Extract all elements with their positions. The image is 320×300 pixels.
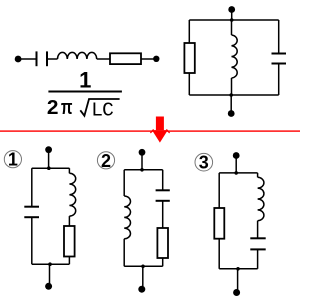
inductor L4 (circuit 2, 4 bumps) <box>124 196 130 239</box>
wire: circuit 2 left branch upper <box>123 170 125 196</box>
svg-text:3: 3 <box>199 153 209 173</box>
junction: circuit 2 bottom rail <box>141 265 145 269</box>
wire: circuit 2 capacitor to resistor <box>162 201 164 228</box>
wire: circuit 2 top stub <box>141 153 143 170</box>
wire: capacitor to inductor <box>47 58 58 60</box>
capacitor C2 (parallel circuit, top plate) <box>272 53 287 55</box>
node: series circuit right terminal <box>153 56 159 62</box>
red arrow head <box>152 130 168 143</box>
wire: circuit 1 right branch upper <box>68 168 70 173</box>
wire: circuit 1 bottom rail <box>32 263 70 265</box>
wire: bottom terminal stub <box>230 95 232 112</box>
wire: circuit 2 right branch upper <box>162 170 164 191</box>
node: circuit 3 top terminal <box>233 152 240 159</box>
wire: left terminal to capacitor <box>18 58 37 60</box>
inductor L5 (circuit 3, 4 bumps) <box>258 177 264 220</box>
wire: top rail <box>189 19 278 21</box>
wire: circuit 3 inductor to capacitor <box>257 221 259 239</box>
wire: circuit 3 left branch lower <box>218 239 220 269</box>
wire: circuit 1 right branch lower <box>68 257 70 265</box>
junction: circuit 3 bottom rail <box>236 267 240 271</box>
radical sign <box>80 99 119 116</box>
junction: top rail <box>230 18 234 22</box>
label circle 1 <box>4 151 21 168</box>
capacitor C1 (series, right plate) <box>46 51 48 66</box>
capacitor C1 (series, left plate) <box>36 51 38 66</box>
junction: circuit 1 bottom rail <box>48 262 52 266</box>
capacitor C3 (circuit 1, top plate) <box>24 206 39 208</box>
wire: right branch upper <box>278 20 280 54</box>
wire: circuit 3 bottom rail <box>219 268 257 270</box>
wire: top terminal stub <box>231 10 233 20</box>
label circle 2 <box>97 152 114 169</box>
wire: middle branch lower <box>231 78 233 95</box>
svg-text:1: 1 <box>8 150 18 170</box>
node: circuit 1 bottom terminal <box>45 283 52 290</box>
resistor R3 (circuit 1) <box>64 226 75 257</box>
red arrow right wing <box>166 129 169 133</box>
node: circuit 1 top terminal <box>45 146 52 153</box>
wire: circuit 1 left branch lower <box>31 217 33 264</box>
red arrow shaft <box>156 117 164 131</box>
wire: circuit 3 top stub <box>235 156 237 173</box>
wire: circuit 3 right branch upper <box>257 173 259 177</box>
wire: circuit 1 top rail <box>32 167 70 169</box>
svg-text:2: 2 <box>101 151 111 171</box>
capacitor C5 (circuit 3, bottom plate) <box>250 248 265 250</box>
junction: circuit 1 top rail <box>47 166 51 170</box>
wire: circuit 3 top rail <box>219 172 257 174</box>
wire: circuit 2 right branch lower <box>162 258 164 266</box>
inductor L1 (series, 4 bumps) <box>58 52 97 59</box>
wire: circuit 2 bottom rail <box>124 265 163 267</box>
red divider line <box>0 130 300 131</box>
capacitor C2 (parallel circuit, bottom plate) <box>272 63 287 65</box>
svg-text:1: 1 <box>79 68 91 93</box>
junction: bottom rail <box>229 93 233 97</box>
svg-text:π: π <box>61 96 73 119</box>
label circle 3 <box>195 153 213 171</box>
resistor R4 (circuit 2) <box>157 228 168 258</box>
junction: circuit 3 top rail <box>234 171 238 175</box>
wire: bottom rail <box>189 94 278 96</box>
wire: circuit 3 right branch lower <box>257 249 259 268</box>
node: parallel circuit bottom terminal <box>228 110 235 117</box>
wire: resistor to right terminal <box>141 58 156 60</box>
svg-text:LC: LC <box>91 100 113 122</box>
wire: circuit 3 bottom stub <box>237 269 239 291</box>
node: circuit 2 bottom terminal <box>138 286 145 293</box>
node: circuit 3 bottom terminal <box>233 289 240 296</box>
wire: circuit 1 top stub <box>48 150 50 168</box>
wire: right branch lower <box>278 64 280 96</box>
junction: circuit 2 top rail <box>140 168 144 172</box>
node: circuit 2 top terminal <box>139 149 146 156</box>
resistor R2 (parallel circuit) <box>184 43 194 73</box>
node: parallel circuit top terminal <box>228 6 235 13</box>
wire: circuit 1 left branch upper <box>31 168 33 207</box>
wire: circuit 2 left branch lower <box>123 239 125 266</box>
wire: inductor to resistor <box>97 58 110 60</box>
capacitor C4 (circuit 2, top plate) <box>156 189 170 191</box>
wire: middle branch upper <box>231 20 233 35</box>
wire: left branch lower <box>188 73 190 95</box>
fraction bar <box>48 91 122 93</box>
capacitor C5 (circuit 3, top plate) <box>250 237 265 239</box>
capacitor C4 (circuit 2, bottom plate) <box>156 200 170 202</box>
wire: circuit 1 inductor to resistor <box>68 216 70 226</box>
wire: left branch upper <box>188 20 190 43</box>
inductor L3 (circuit 1, 4 bumps) <box>69 173 75 216</box>
wire: circuit 2 top rail <box>124 169 163 171</box>
red arrow left wing <box>150 129 153 133</box>
node: series circuit left terminal <box>15 56 22 63</box>
resistor R1 (series) <box>110 53 141 64</box>
wire: circuit 1 bottom stub <box>49 264 51 285</box>
inductor L2 (parallel circuit, 4 bumps) <box>232 35 238 78</box>
capacitor C3 (circuit 1, bottom plate) <box>24 216 39 218</box>
resistor R5 (circuit 3) <box>214 208 224 239</box>
wire: circuit 3 left branch upper <box>218 173 220 208</box>
wire: circuit 2 bottom stub <box>142 266 144 288</box>
svg-text:2: 2 <box>47 96 59 119</box>
